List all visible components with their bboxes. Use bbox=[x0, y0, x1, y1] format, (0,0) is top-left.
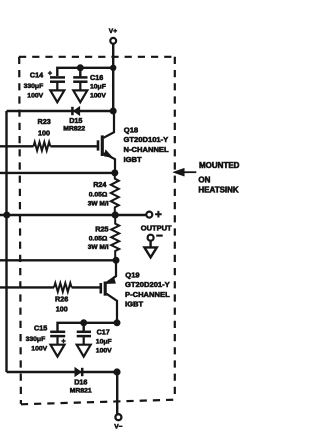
wire R26 to Q19 gate bbox=[72, 286, 100, 288]
svg-text:C16: C16 bbox=[90, 73, 103, 82]
node junction emitter/R24 bbox=[113, 171, 118, 176]
svg-text:330μF: 330μF bbox=[26, 336, 46, 343]
capacitor C14 bbox=[50, 77, 65, 102]
node junction bottom rail bbox=[115, 321, 120, 326]
svg-text:3W M/I: 3W M/I bbox=[88, 244, 109, 251]
ground symbol output bbox=[149, 241, 151, 248]
node junction emitter Q19 bbox=[114, 258, 119, 263]
transistor Q18 bbox=[98, 111, 115, 173]
svg-text:10μF: 10μF bbox=[96, 338, 112, 345]
svg-text:10μF: 10μF bbox=[90, 83, 106, 90]
wire emitter Q18 from left bbox=[0, 172, 115, 174]
node junction cap rail / V+ rail bbox=[111, 66, 115, 70]
svg-text:MR821: MR821 bbox=[70, 388, 92, 395]
svg-text:HEATSINK: HEATSINK bbox=[198, 186, 239, 195]
wire emitter Q19 from left bbox=[0, 259, 116, 261]
node junction C16 stub bbox=[78, 66, 83, 71]
svg-text:0.05Ω: 0.05Ω bbox=[89, 192, 108, 199]
resistor R26 bbox=[54, 283, 72, 292]
svg-text:Q18: Q18 bbox=[124, 126, 138, 135]
wire C16 stub bbox=[79, 68, 81, 77]
svg-text:Q19: Q19 bbox=[125, 270, 139, 279]
V- terminal bbox=[115, 414, 121, 420]
node junction output/left bus bbox=[5, 213, 10, 218]
svg-text:100V: 100V bbox=[90, 92, 106, 99]
resistor R24 bbox=[111, 173, 119, 215]
node junction D15/rail bbox=[111, 109, 116, 114]
svg-text:100V: 100V bbox=[31, 345, 47, 352]
svg-text:100: 100 bbox=[38, 129, 50, 138]
capacitor C15 bbox=[50, 332, 65, 357]
transistor Q19 bbox=[101, 260, 117, 323]
svg-text:GT20D201-Y: GT20D201-Y bbox=[125, 280, 170, 289]
svg-text:R25: R25 bbox=[95, 225, 108, 234]
wire V+ down to rail bbox=[112, 44, 114, 111]
wire C17 stub bbox=[82, 323, 84, 331]
node junction C17 stub bbox=[81, 321, 86, 326]
dashed enclosure (heatsink boundary) bbox=[19, 57, 175, 405]
C14 plus sign bbox=[48, 71, 52, 75]
output + sign bbox=[155, 211, 162, 218]
wire gate Q18 from left bbox=[0, 145, 34, 147]
node junction output/rail bbox=[113, 213, 118, 218]
svg-text:OUTPUT: OUTPUT bbox=[141, 223, 172, 232]
svg-text:100: 100 bbox=[56, 304, 68, 313]
svg-text:ON: ON bbox=[198, 176, 210, 185]
svg-text:330μF: 330μF bbox=[24, 83, 44, 90]
wire D15 horizontal bbox=[7, 110, 114, 112]
svg-text:3W M/I: 3W M/I bbox=[88, 200, 109, 207]
wire output from left bbox=[0, 214, 146, 216]
wire V- down bbox=[116, 372, 118, 414]
svg-text:D16: D16 bbox=[74, 378, 87, 387]
svg-text:N-CHANNEL: N-CHANNEL bbox=[124, 145, 169, 154]
C15 plus sign bbox=[61, 339, 65, 343]
heatsink arrow bbox=[184, 171, 197, 173]
svg-text:GT20D101-Y: GT20D101-Y bbox=[124, 135, 169, 144]
wire D16 horizontal bbox=[7, 371, 118, 373]
svg-text:C14: C14 bbox=[30, 71, 43, 80]
resistor R25 bbox=[111, 215, 119, 260]
resistor R23 bbox=[34, 142, 51, 151]
wire gate Q19 from left bbox=[0, 286, 54, 288]
capacitor C17 bbox=[77, 332, 91, 357]
svg-text:IGBT: IGBT bbox=[124, 155, 143, 164]
V+ terminal bbox=[110, 38, 116, 44]
svg-text:P-CHANNEL: P-CHANNEL bbox=[125, 290, 170, 299]
capacitor C16 bbox=[73, 77, 87, 102]
wire capacitor bottom rail bbox=[58, 323, 118, 331]
svg-text:R23: R23 bbox=[38, 117, 51, 126]
svg-text:R26: R26 bbox=[55, 295, 68, 304]
svg-text:V−: V− bbox=[114, 424, 122, 431]
svg-text:V+: V+ bbox=[109, 28, 117, 35]
svg-text:100V: 100V bbox=[27, 93, 43, 100]
wire capacitor top rail bbox=[57, 68, 113, 76]
svg-text:C17: C17 bbox=[97, 327, 110, 336]
svg-text:D15: D15 bbox=[69, 116, 82, 125]
wire R23 to Q18 gate bbox=[50, 145, 97, 147]
svg-text:C15: C15 bbox=[34, 324, 47, 333]
svg-text:100V: 100V bbox=[96, 348, 112, 355]
output - sign bbox=[156, 235, 163, 237]
svg-text:R24: R24 bbox=[93, 180, 106, 189]
diode D15 MR822 bbox=[72, 107, 79, 115]
svg-text:MOUNTED: MOUNTED bbox=[199, 161, 240, 170]
svg-text:0.05Ω: 0.05Ω bbox=[89, 235, 108, 242]
output - terminal bbox=[148, 235, 154, 241]
svg-text:MR822: MR822 bbox=[63, 126, 85, 133]
svg-text:IGBT: IGBT bbox=[125, 300, 144, 309]
node junction D16/rail bbox=[115, 370, 120, 375]
output + terminal bbox=[146, 212, 152, 218]
diode D16 MR821 bbox=[75, 368, 82, 376]
wire left vertical (output bus) bbox=[5, 111, 7, 372]
